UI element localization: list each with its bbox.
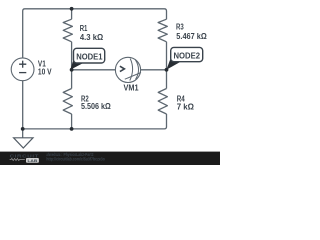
wire R4 top lead (166, 70, 168, 89)
svg-text:10 V: 10 V (38, 67, 52, 76)
junction dot R2 bottom (70, 127, 74, 131)
svg-text:http://circuitlab.com/c/5u3f7b: http://circuitlab.com/c/5u3f7bcze3o (46, 157, 105, 162)
node NODE1 bubble (74, 48, 105, 63)
wire R2 bottom lead (71, 114, 73, 129)
resistor R2 body (63, 89, 72, 115)
junction dot NODE1 (70, 68, 74, 72)
V1 minus sign (19, 72, 26, 74)
voltmeter VM1 chevron (120, 66, 125, 71)
svg-text:R3: R3 (176, 23, 184, 32)
voltmeter VM1 circle (115, 57, 140, 82)
svg-text:LAB: LAB (28, 158, 38, 163)
wire V1 bottom lead (22, 81, 24, 129)
svg-text:NODE1: NODE1 (76, 52, 103, 61)
resistor R4 body (158, 89, 167, 115)
svg-text:4.3 kΩ: 4.3 kΩ (80, 33, 104, 42)
footer bar (0, 152, 220, 165)
wire R1 top lead (71, 9, 73, 19)
node NODE1 bubble tail (70, 58, 84, 70)
voltmeter VM1 inner arc 2 (135, 60, 138, 80)
ground symbol (14, 129, 33, 148)
svg-text:R1: R1 (80, 24, 88, 33)
wire R3 bottom lead (166, 42, 168, 70)
svg-text:5.506 kΩ: 5.506 kΩ (81, 102, 111, 111)
wire voltmeter right terminal to NODE2 junction (141, 69, 167, 71)
voltmeter VM1 inner arc 1 (130, 59, 133, 81)
wire R1 bottom lead to NODE1 junction (71, 42, 73, 70)
junction dot top of R1 (70, 7, 74, 11)
resistor R1 body (63, 19, 72, 42)
junction dot NODE2 (165, 68, 169, 72)
footer CircuitLab logo LAB box (26, 158, 39, 163)
junction dot V1 bottom / ground (21, 127, 25, 131)
svg-text:NODE2: NODE2 (174, 52, 201, 61)
node NODE2 bubble tail (166, 57, 181, 70)
wire NODE1 junction to voltmeter left terminal (72, 69, 116, 71)
voltage source V1 circle (11, 58, 34, 81)
svg-text:VM1: VM1 (124, 84, 139, 93)
voltmeter VM1 needle line (125, 73, 141, 80)
wire R2 top lead (71, 70, 73, 89)
node NODE2 bubble (171, 47, 203, 61)
wire bottom rail (23, 114, 167, 129)
V1 plus sign (19, 61, 26, 68)
svg-text:7 kΩ: 7 kΩ (177, 103, 195, 112)
wire top rail from V1 top over to R3 (23, 9, 167, 58)
svg-text:5.467 kΩ: 5.467 kΩ (176, 32, 207, 41)
resistor R3 body (158, 19, 167, 42)
footer CircuitLab logo zigzag wire (10, 159, 25, 161)
